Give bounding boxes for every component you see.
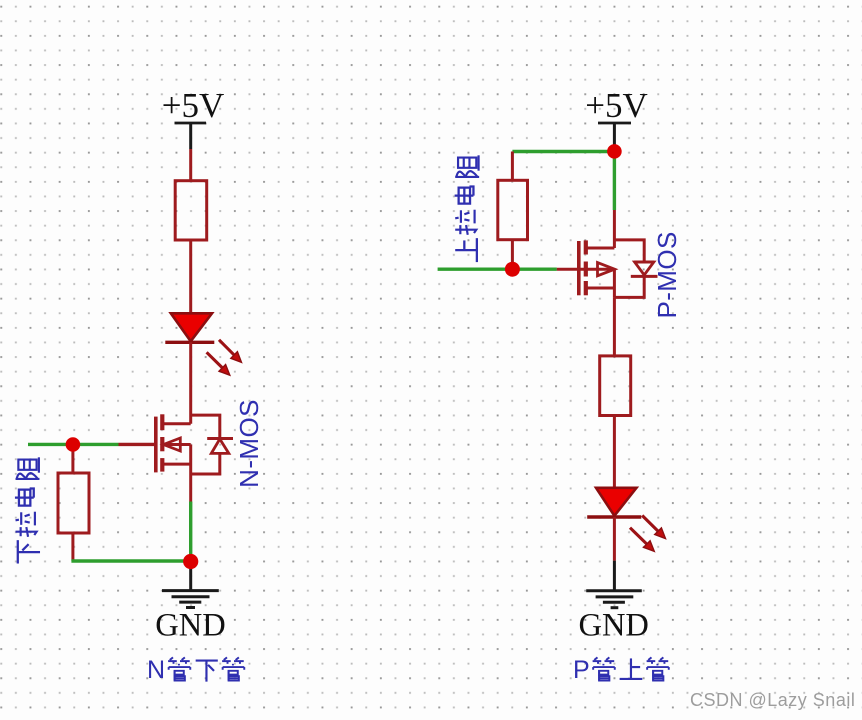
svg-text:P-MOS: P-MOS: [652, 231, 682, 318]
wire Q1 source red segment: [189, 474, 192, 502]
wire junction to pulldown resistor R2: [71, 445, 74, 474]
wire LED D2 to ground (black): [613, 561, 616, 590]
LED D1 triangle: [171, 313, 212, 341]
wire LED D2 to ground (red): [613, 517, 616, 561]
Q1 gate bar: [154, 417, 158, 473]
Q1 channel segment bottom: [160, 458, 164, 472]
svg-text:GND: GND: [155, 608, 225, 644]
Q2 body diode top tee: [614, 240, 644, 262]
transistor Q1 N-MOS: [156, 414, 233, 474]
Q1 source-side vertical: [189, 445, 192, 475]
wire R2 bottom: [71, 533, 74, 561]
wire R1 to LED D1: [189, 240, 192, 314]
wire R2 to source node (green): [71, 559, 190, 562]
wire +5V black stub (right): [613, 123, 616, 150]
resistor R2 pulldown: [58, 473, 89, 533]
wire +5V black stub (left): [189, 123, 192, 149]
LED D1 light arrow 2: [207, 352, 230, 375]
wire +5V to Q2 source (green): [613, 151, 616, 210]
ground symbol (left): [162, 591, 219, 608]
svg-text:+5V: +5V: [585, 86, 648, 125]
wire R4 to LED D2: [613, 416, 616, 489]
wire LED to Q1 drain: [189, 342, 192, 424]
junction dot gate/pullup: [505, 262, 520, 277]
wire gate input green (right): [438, 268, 557, 271]
wire gate input green (left): [28, 443, 119, 446]
Q1 bulk line with arrow: [164, 443, 191, 446]
wire +5V node to pullup (green): [512, 150, 614, 153]
wire R3 to gate node: [511, 240, 514, 270]
wire Q1 source green segment: [189, 502, 192, 562]
LED D2 light arrow 1: [642, 516, 665, 539]
Q2 drain bar (bottom): [586, 287, 615, 290]
LED D1 cathode bar: [165, 341, 214, 344]
Q2 channel segment bottom: [584, 281, 588, 295]
LED D1 light arrow 1: [219, 340, 242, 363]
resistor R4 (series, right): [600, 356, 631, 416]
LED D2 triangle: [596, 488, 637, 516]
wire to ground (black): [189, 562, 192, 590]
wire gate input red segment (right): [557, 268, 614, 271]
junction dot +5V node: [607, 144, 622, 159]
Q1 source bar: [162, 463, 190, 466]
Q1 body diode top tee: [191, 415, 220, 438]
Q1 arrow (points left into channel): [163, 438, 180, 451]
Q1 channel segment middle: [160, 437, 164, 451]
wire Q2 drain to resistor R4: [613, 297, 616, 356]
wire +5V to resistor R1: [189, 149, 192, 181]
label 上拉电阻 (rotated, pullup resistor): [455, 155, 480, 262]
resistor R1 (series, left): [175, 181, 207, 240]
Q2 drain-side vertical: [613, 269, 616, 297]
svg-text:GND: GND: [578, 608, 648, 644]
Q2 gate bar: [577, 241, 581, 295]
Q2 body diode bottom lead: [614, 276, 644, 297]
Q2 body diode anode bar: [634, 261, 654, 264]
Q2 arrow (points right, out of channel): [598, 263, 615, 276]
wire +5V to Q2 source (red): [613, 210, 616, 248]
svg-text:P: P: [573, 656, 590, 684]
svg-text:+5V: +5V: [162, 86, 225, 125]
Q1 channel segment top: [160, 414, 164, 430]
Q2 body diode cathode bar: [631, 275, 658, 278]
Q2 source bar (top): [586, 247, 615, 250]
power bar symbol (left): [175, 122, 207, 125]
junction dot gate/pulldown: [66, 437, 81, 452]
svg-text:N: N: [147, 656, 165, 684]
Q1 body diode cathode bar: [207, 437, 233, 440]
Q2 channel segment middle: [584, 262, 588, 277]
power bar symbol (right): [598, 122, 631, 125]
Q1 body diode triangle (points up): [211, 439, 229, 453]
Q1 drain bar: [162, 422, 190, 425]
LED D2 cathode bar: [587, 515, 641, 518]
wire gate input red segment: [119, 443, 156, 446]
label 下拉电阻 (rotated, pulldown resistor): [15, 457, 40, 563]
Q2 channel segment top: [584, 240, 588, 254]
wire down to pullup resistor R3: [511, 152, 514, 181]
junction dot source/ground: [183, 554, 198, 569]
ground symbol (right): [586, 591, 642, 608]
transistor Q2 P-MOS: [579, 240, 658, 298]
LED D2 light arrow 2: [630, 528, 654, 552]
Q1 body diode bottom lead: [191, 453, 220, 474]
Q2 body diode triangle (points down): [635, 262, 654, 275]
svg-text:N-MOS: N-MOS: [234, 399, 264, 488]
svg-text:CSDN @Lazy Snail: CSDN @Lazy Snail: [690, 690, 855, 710]
resistor R3 pullup: [498, 180, 528, 239]
